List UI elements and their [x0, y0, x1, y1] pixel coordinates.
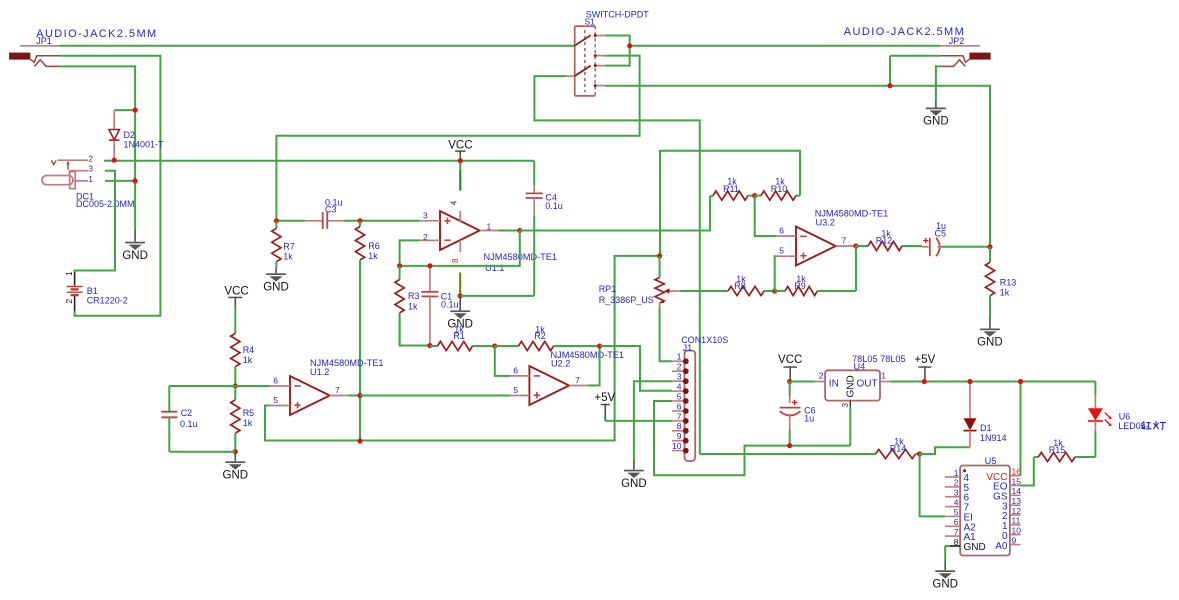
wire R11/R10 node to U3.2 pin6 — [755, 196, 776, 236]
capacitor C5 1u polarized — [922, 238, 942, 256]
junction dot vref node — [357, 438, 362, 443]
svg-text:2: 2 — [64, 299, 74, 304]
svg-text:R13: R13 — [1000, 278, 1017, 288]
svg-text:R4: R4 — [243, 345, 255, 355]
potentiometer RP1 R_3386P_US — [655, 256, 680, 308]
wire U3.2 output feedback to R9 — [855, 246, 857, 291]
diode D2 1N4001-T — [109, 111, 119, 160]
svg-text:6: 6 — [954, 517, 959, 527]
svg-text:R1: R1 — [453, 331, 465, 341]
junction dot R14/D1/EI — [917, 451, 922, 456]
ground GND below R13 — [989, 317, 991, 329]
svg-text:6: 6 — [513, 365, 518, 375]
junction dot VCC/C6/U4 — [787, 379, 792, 384]
wire D2 top to tip column — [114, 109, 135, 111]
junction dot R5/C2/GND — [233, 449, 238, 454]
wire JP1 sleeve to S1 pole1 — [60, 45, 575, 47]
wire U2.2 pin6 from R1/R2 node — [495, 346, 510, 376]
svg-text:U1.1: U1.1 — [485, 263, 504, 273]
junction dot S1 output — [627, 43, 632, 48]
svg-text:1u: 1u — [804, 414, 814, 424]
svg-text:U2.2: U2.2 — [551, 358, 570, 368]
junction dot JP1 tip / D2 anode — [133, 108, 138, 113]
svg-text:GND: GND — [964, 542, 986, 553]
pin U5-2 — [945, 486, 960, 488]
svg-text:J1: J1 — [683, 343, 693, 353]
svg-text:4: 4 — [954, 497, 959, 507]
svg-text:9: 9 — [677, 431, 682, 441]
svg-text:1: 1 — [954, 468, 959, 478]
wire JP1 tip down to D2/DC1/GND column — [60, 66, 136, 230]
svg-text:VCC: VCC — [448, 140, 472, 152]
svg-text:1: 1 — [487, 221, 492, 231]
svg-text:2: 2 — [819, 370, 824, 380]
svg-text:2: 2 — [423, 232, 428, 242]
svg-text:6: 6 — [779, 226, 784, 236]
svg-text:7: 7 — [842, 235, 847, 245]
resistor R1 1k — [430, 345, 438, 347]
ground GND below J1 — [633, 460, 635, 470]
wire J1 pin3 to GND — [634, 381, 672, 459]
capacitor C4 0.1u — [526, 161, 543, 216]
svg-text:11: 11 — [1012, 516, 1021, 526]
wire U2.2 output up to feedback node — [588, 346, 600, 386]
junction dot D1 anode on +5V rail — [967, 379, 972, 384]
svg-text:IN: IN — [829, 378, 839, 389]
wire C4 bottom to pin8 node — [460, 295, 534, 297]
svg-text:4: 4 — [450, 200, 459, 205]
wire U1.1 output to R11 (feedback path) — [520, 196, 710, 231]
svg-text:U5: U5 — [985, 456, 997, 466]
LED U6 LED05 — [1088, 382, 1103, 458]
junction dot RP1 top / vref — [657, 253, 662, 258]
svg-text:VCC: VCC — [224, 286, 248, 298]
resistor R13 1k — [989, 247, 991, 262]
junction dot R7/C3 — [274, 218, 279, 223]
connector JP1 AUDIO-JACK2.5MM — [9, 46, 59, 67]
wire VCC to R4 — [234, 306, 236, 333]
ground GND below DC1 column — [134, 230, 136, 242]
resistor R6 1k — [359, 221, 361, 227]
junction dot C6 minus — [787, 443, 792, 448]
svg-text:3: 3 — [423, 210, 428, 220]
wire U1.1 pin8 to GND node (overlap) — [459, 273, 461, 296]
junction dot D2 cathode on rail — [112, 158, 117, 163]
pin J1-10 — [672, 450, 683, 452]
wire R14 node down to U5 EI pin5 — [920, 454, 945, 516]
svg-text:R10: R10 — [771, 184, 788, 194]
wire S1 throw c4 to JP2 ring junction — [605, 85, 890, 87]
svg-text:0.1u: 0.1u — [545, 201, 563, 211]
wire +5V to U5 VCC pin16 — [1020, 382, 1022, 476]
pin U5-7 — [945, 535, 960, 537]
svg-text:CR1220-2: CR1220-2 — [87, 295, 128, 305]
wire U5 EO pin15 to R15 — [1021, 457, 1034, 486]
wire S1 throws c1/c3 to output junction — [605, 36, 630, 66]
svg-text:R6: R6 — [368, 241, 380, 251]
svg-text:1k: 1k — [243, 355, 253, 365]
svg-text:RP1: RP1 — [599, 284, 617, 294]
svg-text:14: 14 — [1012, 486, 1022, 496]
pin J1-4 — [672, 390, 683, 392]
pin U5-4 — [945, 506, 960, 508]
wire R14 node to D1 cathode — [920, 447, 970, 454]
junction dot U2.2 output feedback — [597, 343, 602, 348]
wire C5 to R13 node — [942, 246, 991, 248]
svg-text:JP2: JP2 — [949, 36, 965, 46]
wire C3 row left — [276, 220, 305, 222]
wire U1.2 output to U2.2 pin5 — [360, 395, 510, 397]
wire J1 pin5 to U4 gnd net — [654, 401, 850, 475]
capacitor C3 0.1u — [305, 212, 344, 229]
pin J1-7 — [672, 420, 683, 422]
pin J1-1 — [672, 360, 683, 362]
wire U5 GND pin8 down — [945, 545, 950, 547]
svg-text:2: 2 — [88, 154, 93, 164]
svg-text:OUT: OUT — [857, 378, 878, 389]
svg-text:GND: GND — [223, 470, 249, 482]
svg-text:GND: GND — [122, 250, 148, 262]
pin J1-3 — [672, 380, 683, 382]
svg-text:R_3386P_US: R_3386P_US — [599, 295, 654, 305]
svg-text:0.1u: 0.1u — [180, 419, 198, 429]
resistor R8 1k — [728, 286, 764, 295]
wire R8/R9 node to U3.2 pin5 — [775, 256, 776, 291]
resistor R10 1k — [755, 195, 761, 197]
wire U1.2 pin5 feedback loop — [265, 256, 660, 441]
resistor R14 1k — [876, 449, 916, 458]
svg-text:A0: A0 — [995, 541, 1008, 552]
LED arrows U6 — [1105, 413, 1112, 427]
svg-text:S1: S1 — [585, 17, 596, 27]
wire R10 right to vref rail — [660, 151, 800, 256]
svg-text:12: 12 — [1012, 506, 1022, 516]
resistor R9 1k — [775, 290, 785, 292]
ground GND below U5 — [944, 561, 946, 570]
svg-text:+5V: +5V — [594, 392, 615, 404]
svg-text:5: 5 — [954, 507, 959, 517]
pin1 marker U5 — [963, 469, 966, 472]
svg-text:7: 7 — [677, 411, 682, 421]
junction dot U1.1 output — [517, 228, 522, 233]
svg-text:AUDIO-JACK2.5MM: AUDIO-JACK2.5MM — [844, 26, 964, 38]
svg-text:U6: U6 — [1119, 411, 1131, 421]
pin U5-3 — [945, 496, 960, 498]
junction dot VCC rail — [458, 158, 463, 163]
wire VCC dot to U4 IN — [790, 381, 815, 383]
svg-text:U1.2: U1.2 — [310, 367, 329, 377]
wire feedback node to J1 pin4 — [600, 346, 672, 391]
wire R3/C1 bottom row — [400, 313, 430, 346]
ground GND at JP2 tip — [935, 100, 937, 108]
svg-text:U4: U4 — [854, 361, 866, 371]
pin J1-9 — [672, 440, 683, 442]
wire U1.2 output — [348, 395, 360, 397]
resistor R2 1k — [495, 345, 519, 347]
svg-text:13: 13 — [1012, 496, 1022, 506]
wire RP1 bottom to J1 pin1 — [660, 308, 672, 362]
pin U5-5 — [945, 515, 960, 517]
pin U5-13 — [1010, 504, 1021, 506]
op-amp U1.1 NJM4580MD-TE1 — [420, 211, 499, 252]
svg-text:R8: R8 — [734, 281, 746, 291]
label U6 chinese chars — [1142, 421, 1166, 429]
svg-text:C2: C2 — [181, 408, 193, 418]
pin U5-16 — [1010, 475, 1021, 477]
pin U5-8 — [945, 545, 960, 547]
svg-text:JP1: JP1 — [36, 36, 52, 46]
ground GND below R7 — [275, 269, 277, 274]
wire C3 to U1.1 pin3 — [344, 220, 420, 222]
svg-text:1k: 1k — [283, 252, 293, 262]
svg-text:1N914: 1N914 — [980, 433, 1007, 443]
wire R6 bottom down to U1.2 output node — [359, 260, 361, 441]
pin U5-1 — [945, 476, 960, 478]
op-amp U1.2 NJM4580MD-TE1 — [270, 376, 348, 415]
svg-text:3: 3 — [841, 403, 850, 408]
svg-text:VCC: VCC — [778, 354, 802, 366]
svg-text:R7: R7 — [283, 242, 295, 252]
wire JP2 ring down — [890, 55, 940, 57]
resistor R7 1k — [275, 221, 277, 229]
svg-text:10: 10 — [672, 441, 682, 451]
capacitor C2 0.1u — [161, 386, 177, 452]
svg-text:1: 1 — [64, 271, 74, 276]
junction dot R8/R9 — [772, 288, 777, 293]
svg-text:AUDIO-JACK2.5MM: AUDIO-JACK2.5MM — [36, 28, 156, 40]
junction dot +5V to U5 — [1018, 379, 1023, 384]
svg-text:+5V: +5V — [915, 354, 936, 366]
svg-text:GND: GND — [923, 116, 949, 128]
wire divider row to U1.2 pin6 — [169, 385, 270, 387]
wire JP2 ring junction to right column down to C5/R13 node — [890, 86, 990, 247]
svg-text:8: 8 — [451, 258, 460, 263]
svg-text:R11: R11 — [723, 184, 739, 194]
svg-text:5: 5 — [273, 395, 278, 405]
svg-text:10: 10 — [1012, 526, 1022, 536]
svg-text:2: 2 — [954, 478, 959, 488]
wire S1 output junction to JP2 sleeve — [630, 45, 941, 47]
connector DC1 DC005-2.0MM — [42, 160, 88, 188]
resistor R12 1k — [856, 245, 868, 247]
junction dot +5V — [922, 379, 927, 384]
wire VCC rail from DC1 pin2 to C4 top — [104, 160, 534, 162]
svg-text:6: 6 — [273, 376, 278, 386]
junction dot DC1 pin1 — [133, 178, 138, 183]
switch S1 SWITCH-DPDT — [566, 26, 605, 96]
junction dot pin8/C4/GND — [458, 293, 463, 298]
wire JP1 ring to battery B1 minus — [60, 56, 161, 316]
voltage regulator U4 78L05 — [815, 370, 891, 408]
svg-text:7: 7 — [954, 527, 959, 537]
wire S1 throw c2 down-left to C3/R7 input node — [276, 56, 639, 221]
wire U1.1 pin2 feedback — [400, 240, 420, 266]
wire C6 bottom to gnd net — [789, 430, 791, 446]
pin J1-6 — [672, 410, 683, 412]
wire signal to R14 — [700, 453, 876, 455]
resistor R11 1k — [710, 195, 713, 197]
wire C4 bottom column — [533, 216, 535, 296]
junction dot C1 bottom — [427, 343, 432, 348]
pin U5-15 — [1010, 485, 1021, 487]
svg-text:GND: GND — [932, 579, 958, 591]
svg-text:D2: D2 — [124, 130, 136, 140]
svg-text:1k: 1k — [243, 418, 253, 428]
svg-text:4: 4 — [677, 382, 682, 392]
svg-text:2: 2 — [677, 362, 682, 372]
junction dot R4/R5 divider — [233, 383, 238, 388]
junction dot U3.2 output — [853, 243, 858, 248]
svg-text:U3.2: U3.2 — [816, 218, 835, 228]
svg-text:7: 7 — [335, 385, 340, 395]
svg-text:3: 3 — [88, 164, 93, 174]
svg-text:3: 3 — [677, 372, 682, 382]
svg-text:1: 1 — [88, 174, 93, 184]
junction dot R11/R10 — [752, 193, 757, 198]
svg-text:0.1u: 0.1u — [441, 300, 459, 310]
svg-text:8: 8 — [677, 421, 682, 431]
junction dot JP2 ring — [887, 83, 892, 88]
svg-text:15: 15 — [1012, 476, 1022, 486]
pin U5-11 — [1010, 524, 1021, 526]
wire VCC rail to U1.1 pin4 — [459, 161, 461, 170]
svg-text:1k: 1k — [408, 301, 418, 311]
battery B1 CR1220-2 — [67, 272, 83, 311]
svg-text:R3: R3 — [408, 291, 420, 301]
resistor R4 1k — [231, 333, 240, 366]
svg-text:6: 6 — [677, 401, 682, 411]
wire C2 bottom to R5 bottom — [169, 451, 235, 453]
ground GND below R5 — [234, 452, 236, 461]
svg-text:D1: D1 — [980, 423, 992, 433]
wire DC1 pin3 down to battery B1 plus — [75, 171, 115, 272]
wire U1.1 output node — [498, 230, 519, 232]
junction dot C5/R13 — [987, 244, 992, 249]
svg-text:LED05-: LED05- — [1118, 421, 1149, 431]
pin U5-10 — [1010, 534, 1021, 536]
svg-text:1N4001-T: 1N4001-T — [124, 140, 165, 150]
svg-text:R15: R15 — [1049, 445, 1066, 455]
svg-text:C3: C3 — [325, 205, 337, 215]
wire +5V output rail — [890, 381, 1095, 383]
svg-text:1: 1 — [881, 370, 886, 380]
capacitor C1 0.1u — [421, 268, 438, 343]
junction dot R1/R2 — [492, 343, 497, 348]
svg-text:7: 7 — [575, 375, 580, 385]
junction dot C3/R6 — [357, 218, 362, 223]
pin U5-14 — [1010, 494, 1021, 496]
pin J1-2 — [672, 370, 683, 372]
svg-text:1k: 1k — [1000, 288, 1010, 298]
capacitor C6 1u polarized — [780, 382, 801, 431]
svg-text:R5: R5 — [243, 408, 255, 418]
svg-text:9: 9 — [1012, 535, 1017, 545]
wire S1 pole2 to signal column — [534, 76, 699, 454]
svg-text:DC005-2.0MM: DC005-2.0MM — [76, 199, 135, 209]
svg-text:5: 5 — [513, 385, 518, 395]
pin J1-5 — [672, 400, 683, 402]
svg-text:1k: 1k — [368, 251, 378, 261]
junction dot C1 top — [427, 263, 432, 268]
svg-text:R14: R14 — [890, 443, 907, 453]
wire DC1 pin1 to tip column — [105, 180, 135, 182]
svg-text:C5: C5 — [935, 229, 947, 239]
svg-text:GND: GND — [263, 282, 289, 294]
svg-text:GND: GND — [846, 375, 857, 397]
svg-text:5: 5 — [677, 391, 682, 401]
wire U1.1 output down to R3/C1 top row — [400, 231, 520, 266]
connector J1 CON1X10S — [685, 351, 696, 462]
svg-text:3: 3 — [954, 488, 959, 498]
diode D1 1N914 — [964, 382, 977, 448]
svg-text:R9: R9 — [794, 281, 806, 291]
resistor R3 1k — [399, 266, 401, 280]
resistor R15 1k — [1034, 456, 1039, 458]
connector JP2 AUDIO-JACK2.5MM — [940, 46, 990, 67]
wire RP1 wiper to R8 — [680, 290, 728, 292]
svg-text:R12: R12 — [876, 236, 893, 246]
svg-text:GND: GND — [621, 478, 647, 490]
wire U4 GND pin down — [849, 408, 851, 446]
junction dot R3 top — [397, 263, 402, 268]
svg-text:SWITCH-DPDT: SWITCH-DPDT — [586, 10, 649, 20]
op-amp U2.2 NJM4580MD-TE1 — [510, 366, 588, 405]
IC U5 — [960, 466, 1010, 556]
pin J1-8 — [672, 430, 683, 432]
pin U5-12 — [1010, 514, 1021, 516]
resistor R5 1k — [234, 386, 236, 400]
pin U5-6 — [945, 525, 960, 527]
svg-text:1: 1 — [677, 352, 682, 362]
wire JP2 tip to GND — [936, 66, 941, 99]
junction dot U1.2 output — [357, 393, 362, 398]
pin U5-9 — [1010, 544, 1021, 546]
op-amp U3.2 NJM4580MD-TE1 — [776, 227, 856, 266]
ground GND below U1.1 — [459, 296, 461, 310]
svg-text:GND: GND — [977, 337, 1003, 349]
svg-text:R2: R2 — [534, 331, 546, 341]
svg-text:5: 5 — [779, 246, 784, 256]
